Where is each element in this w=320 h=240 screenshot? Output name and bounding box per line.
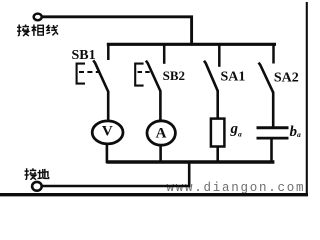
svg-text:V: V xyxy=(102,124,113,140)
svg-text:www.diangon.com: www.diangon.com xyxy=(167,181,304,195)
svg-text:SA1: SA1 xyxy=(221,69,246,84)
svg-text:SA2: SA2 xyxy=(274,70,299,85)
svg-text:SB1: SB1 xyxy=(72,48,96,63)
svg-text:A: A xyxy=(156,126,167,142)
svg-text:SB2: SB2 xyxy=(163,68,185,83)
